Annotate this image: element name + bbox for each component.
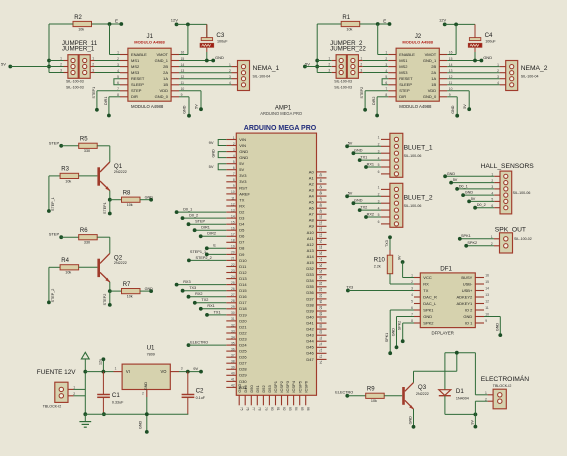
svg-text:2: 2 — [385, 57, 387, 61]
svg-text:SIL-100-02: SIL-100-02 — [514, 237, 532, 241]
svg-text:STEP_2: STEP_2 — [51, 289, 55, 303]
svg-text:75: 75 — [240, 407, 244, 411]
svg-text:3: 3 — [117, 63, 119, 67]
svg-text:3V3: 3V3 — [239, 179, 247, 184]
svg-text:VCC: VCC — [423, 275, 432, 280]
net label TX2 — [358, 208, 362, 212]
svg-text:RX1: RX1 — [367, 162, 374, 166]
wire — [61, 236, 78, 238]
svg-text:27: 27 — [231, 293, 235, 297]
svg-text:2: 2 — [233, 142, 235, 146]
svg-text:R2: R2 — [74, 15, 82, 21]
svg-text:TX2: TX2 — [201, 298, 208, 302]
wire — [110, 54, 121, 56]
svg-text:2B: 2B — [431, 64, 436, 69]
svg-text:100uF: 100uF — [485, 40, 496, 44]
svg-text:A7: A7 — [309, 212, 315, 217]
svg-text:47: 47 — [318, 197, 322, 201]
junction — [186, 370, 190, 374]
svg-text:2: 2 — [117, 57, 119, 61]
svg-text:53: 53 — [318, 233, 322, 237]
svg-text:A10: A10 — [307, 230, 315, 235]
net label GND — [149, 198, 153, 202]
resistor R5 — [79, 137, 98, 154]
svg-text:8: 8 — [233, 178, 235, 182]
svg-text:37: 37 — [231, 354, 235, 358]
wire — [179, 371, 201, 373]
wire — [347, 195, 381, 197]
wire — [207, 60, 213, 62]
wire — [414, 370, 457, 372]
svg-text:61: 61 — [318, 282, 322, 286]
junction — [473, 59, 477, 63]
svg-text:9: 9 — [233, 184, 235, 188]
svg-text:ICSP5: ICSP5 — [297, 380, 302, 392]
svg-text:65: 65 — [318, 306, 322, 310]
svg-text:ELECTROIMÁN: ELECTROIMÁN — [481, 374, 529, 383]
net label ELECTRO — [187, 343, 191, 347]
capacitor C2 (0.1uF) — [182, 372, 206, 415]
svg-text:38: 38 — [231, 360, 235, 364]
wire — [200, 91, 202, 109]
net label GND — [352, 151, 356, 155]
svg-text:51: 51 — [318, 221, 322, 225]
wire — [366, 216, 381, 218]
svg-text:GND_0: GND_0 — [155, 94, 169, 99]
svg-text:D17: D17 — [239, 300, 247, 305]
resistor R4 — [60, 258, 79, 275]
wire — [469, 200, 494, 202]
wire — [475, 400, 487, 402]
net label RX1 — [199, 307, 203, 311]
svg-text:17: 17 — [231, 233, 235, 237]
resistor R2 — [73, 15, 92, 32]
svg-text:R1: R1 — [342, 15, 350, 21]
svg-text:ICSP1: ICSP1 — [273, 380, 278, 392]
svg-text:GND: GND — [239, 155, 248, 160]
svg-text:D39: D39 — [306, 308, 314, 313]
svg-text:50: 50 — [318, 215, 322, 219]
wire — [110, 199, 122, 201]
svg-text:2: 2 — [485, 397, 487, 401]
svg-text:D34: D34 — [306, 278, 314, 283]
svg-text:A5: A5 — [309, 200, 315, 205]
transistor Q3 (2N2222 NPN) — [402, 383, 429, 410]
svg-text:VDD: VDD — [160, 88, 169, 93]
svg-text:DIR1: DIR1 — [201, 226, 210, 230]
wire — [377, 96, 388, 98]
svg-text:DIR: DIR — [131, 94, 138, 99]
svg-text:6: 6 — [378, 170, 380, 174]
svg-text:IO 1: IO 1 — [465, 320, 473, 325]
wire — [474, 24, 476, 37]
net label GND — [395, 345, 399, 349]
wire — [189, 259, 226, 261]
svg-text:GND: GND — [495, 323, 499, 332]
svg-text:5V: 5V — [239, 167, 244, 172]
svg-text:7809: 7809 — [147, 353, 155, 357]
svg-text:GND: GND — [145, 195, 154, 199]
net label 9V (electromagnet supply) — [470, 414, 477, 428]
svg-text:13: 13 — [485, 293, 489, 297]
svg-text:SLEEP: SLEEP — [399, 82, 412, 87]
svg-text:D0_2: D0_2 — [189, 214, 198, 218]
svg-text:NEMA_1: NEMA_1 — [253, 65, 280, 72]
wire — [365, 90, 388, 92]
wire — [206, 24, 208, 37]
wire — [48, 176, 50, 211]
svg-text:IO 2: IO 2 — [465, 307, 473, 312]
svg-text:TBLOCK-I2: TBLOCK-I2 — [493, 384, 512, 388]
svg-text:12V: 12V — [171, 18, 178, 23]
wire — [97, 90, 120, 92]
svg-text:ADKEY1: ADKEY1 — [457, 301, 474, 306]
net label D0_1 — [175, 210, 179, 214]
svg-text:77: 77 — [252, 407, 256, 411]
svg-text:71: 71 — [318, 342, 322, 346]
svg-text:10k: 10k — [346, 27, 352, 31]
svg-text:DAC_L: DAC_L — [423, 301, 437, 306]
svg-text:D30: D30 — [239, 379, 247, 384]
wire — [189, 344, 227, 346]
junction — [205, 59, 209, 63]
svg-text:0.1uF: 0.1uF — [196, 396, 206, 400]
diode D1 (1N4004) — [439, 353, 469, 415]
svg-text:MODULO A4988: MODULO A4988 — [134, 39, 165, 44]
svg-text:STEP1: STEP1 — [92, 87, 96, 99]
net label 5V — [467, 200, 471, 204]
wire — [207, 314, 226, 316]
svg-text:TX: TX — [423, 288, 428, 293]
wire — [95, 66, 121, 68]
wire — [177, 284, 227, 286]
terminal block ELECTROIMAN (TBLOCK-I2) — [481, 374, 529, 409]
svg-text:3: 3 — [497, 75, 499, 79]
wire — [389, 274, 391, 284]
svg-text:21: 21 — [231, 257, 235, 261]
wire — [475, 394, 487, 396]
connector SPK_OUT (SIL-100-02) — [491, 227, 532, 253]
svg-text:STEP2: STEP2 — [360, 87, 364, 99]
wire — [195, 229, 227, 231]
wire — [74, 395, 86, 397]
svg-text:2: 2 — [360, 63, 362, 67]
svg-text:15: 15 — [231, 221, 235, 225]
A4988 driver module J2 — [385, 33, 452, 109]
svg-text:1B: 1B — [431, 82, 436, 87]
svg-text:GND: GND — [447, 172, 456, 176]
svg-text:5: 5 — [411, 300, 413, 304]
wire — [447, 84, 500, 86]
svg-text:6: 6 — [233, 166, 235, 170]
svg-text:ADKEY2: ADKEY2 — [457, 294, 474, 299]
svg-text:70: 70 — [318, 336, 322, 340]
wire — [390, 309, 414, 311]
svg-text:9V: 9V — [398, 255, 402, 260]
svg-text:ICSP6: ICSP6 — [303, 380, 308, 392]
svg-text:68: 68 — [318, 324, 322, 328]
svg-text:D43: D43 — [306, 333, 314, 338]
wire — [347, 395, 365, 397]
wire — [201, 235, 227, 237]
svg-text:MS1: MS1 — [399, 58, 408, 63]
svg-text:7: 7 — [233, 172, 235, 176]
svg-text:1: 1 — [378, 186, 380, 190]
Arduino Mega Pro module AMP1 — [226, 105, 326, 410]
svg-text:D44: D44 — [306, 339, 314, 344]
svg-text:3V3: 3V3 — [239, 173, 247, 178]
wire — [92, 23, 122, 25]
svg-text:1: 1 — [117, 51, 119, 55]
wire — [468, 91, 470, 109]
wire — [413, 371, 415, 382]
svg-text:3: 3 — [328, 69, 330, 73]
wire — [109, 191, 111, 200]
svg-text:A1: A1 — [309, 175, 315, 180]
svg-text:3: 3 — [60, 69, 62, 73]
svg-text:A9: A9 — [309, 224, 315, 229]
net label 5V — [345, 194, 349, 198]
net label RX3 — [175, 283, 179, 287]
svg-text:D0_1: D0_1 — [183, 208, 192, 212]
net label STEP2 — [363, 108, 367, 112]
svg-text:55: 55 — [318, 246, 322, 250]
svg-text:MODULO A4988: MODULO A4988 — [399, 104, 432, 109]
wire — [317, 72, 332, 74]
svg-text:10k: 10k — [65, 271, 71, 275]
svg-text:STEP_1: STEP_1 — [51, 197, 55, 211]
svg-text:A6: A6 — [309, 206, 315, 211]
svg-text:1: 1 — [115, 366, 117, 370]
svg-text:ELECTRO: ELECTRO — [190, 340, 208, 344]
wire — [499, 317, 501, 336]
wire — [114, 79, 120, 85]
svg-text:2: 2 — [142, 391, 144, 395]
svg-text:83: 83 — [288, 407, 292, 411]
net label DIR1 — [107, 114, 111, 118]
svg-text:BLUET_2: BLUET_2 — [404, 195, 433, 202]
net label SPK2 — [464, 244, 468, 248]
wire — [48, 24, 50, 73]
svg-text:3: 3 — [92, 69, 94, 73]
svg-text:82: 82 — [282, 407, 286, 411]
svg-text:USB-: USB- — [463, 281, 473, 286]
svg-text:HALL_SENSORS: HALL_SENSORS — [481, 163, 535, 170]
svg-text:TX2: TX2 — [360, 205, 367, 209]
wire — [195, 302, 227, 304]
svg-text:GND: GND — [423, 314, 432, 319]
wire — [177, 23, 207, 25]
svg-text:GND: GND — [144, 382, 148, 391]
svg-text:VIN: VIN — [239, 143, 246, 148]
svg-text:32: 32 — [231, 323, 235, 327]
svg-text:GND_0: GND_0 — [423, 94, 437, 99]
svg-text:DAC_R: DAC_R — [423, 294, 437, 299]
svg-text:D4: D4 — [239, 222, 245, 227]
svg-text:D36: D36 — [306, 290, 314, 295]
svg-text:D1: D1 — [456, 388, 464, 395]
wire — [445, 23, 475, 25]
svg-text:66: 66 — [318, 312, 322, 316]
svg-text:DIR: DIR — [399, 94, 406, 99]
wire — [466, 245, 494, 247]
svg-text:2: 2 — [497, 69, 499, 73]
net label STEP — [187, 222, 191, 226]
svg-text:GND: GND — [211, 149, 215, 158]
wire — [347, 145, 381, 147]
svg-text:R8: R8 — [123, 191, 131, 197]
svg-text:1: 1 — [60, 57, 62, 61]
wire — [397, 316, 415, 318]
svg-text:E: E — [115, 18, 118, 23]
svg-text:STEP: STEP — [49, 232, 60, 237]
wire — [218, 164, 226, 170]
wire ground rail — [85, 413, 188, 415]
svg-text:MS2: MS2 — [399, 64, 408, 69]
svg-text:79: 79 — [264, 407, 268, 411]
voltage regulator U1 (7809) — [114, 344, 183, 397]
svg-text:76: 76 — [246, 407, 250, 411]
svg-text:5V: 5V — [463, 104, 467, 109]
svg-text:0.33uF: 0.33uF — [112, 401, 124, 405]
svg-text:D18: D18 — [239, 306, 247, 311]
wire — [10, 66, 63, 68]
net label D0_1 — [455, 187, 459, 191]
svg-text:A3: A3 — [309, 187, 315, 192]
junction — [186, 23, 190, 27]
svg-text:GND: GND — [354, 149, 363, 153]
svg-text:10k: 10k — [371, 399, 377, 403]
svg-text:R9: R9 — [367, 387, 375, 393]
svg-text:35: 35 — [231, 341, 235, 345]
svg-text:D25: D25 — [239, 349, 247, 354]
wire — [457, 188, 494, 190]
svg-text:3: 3 — [181, 366, 183, 370]
resistor R9 — [366, 387, 385, 404]
wire — [61, 145, 78, 147]
wire — [389, 310, 391, 353]
svg-text:62: 62 — [318, 288, 322, 292]
svg-text:JUMPER_1: JUMPER_1 — [62, 46, 95, 53]
svg-text:D22: D22 — [239, 330, 247, 335]
svg-text:GND: GND — [409, 416, 413, 425]
net label SPK1 — [388, 351, 392, 355]
svg-text:D7: D7 — [239, 240, 245, 245]
svg-text:D2: D2 — [239, 210, 245, 215]
net label STEP_1 — [47, 209, 51, 213]
wire — [413, 409, 415, 427]
wire — [179, 78, 232, 80]
svg-text:6: 6 — [378, 220, 380, 224]
svg-text:54: 54 — [318, 239, 322, 243]
svg-text:2N2222: 2N2222 — [416, 392, 429, 396]
wire — [316, 24, 318, 73]
wire — [360, 209, 381, 211]
net label STEP2_2 — [187, 259, 191, 263]
wire — [109, 200, 111, 214]
svg-text:SIL-100-06: SIL-100-06 — [513, 191, 531, 195]
svg-text:1A: 1A — [431, 76, 436, 81]
wire — [305, 66, 332, 68]
svg-text:A15: A15 — [307, 260, 315, 265]
svg-text:26: 26 — [231, 287, 235, 291]
svg-text:ICSP3: ICSP3 — [285, 380, 290, 392]
svg-text:ARDUINO MEGA PRO: ARDUINO MEGA PRO — [244, 125, 317, 132]
svg-text:A13: A13 — [307, 248, 315, 253]
svg-text:MS3: MS3 — [399, 70, 408, 75]
wire — [403, 322, 414, 324]
svg-text:69: 69 — [318, 330, 322, 334]
svg-text:30: 30 — [231, 311, 235, 315]
net label TX1 — [205, 313, 209, 317]
svg-text:DIR2: DIR2 — [207, 232, 216, 236]
svg-text:4: 4 — [385, 69, 387, 73]
junction — [83, 370, 87, 374]
svg-text:49: 49 — [318, 209, 322, 213]
svg-text:ICSP4: ICSP4 — [291, 380, 296, 392]
svg-text:D37: D37 — [306, 296, 314, 301]
svg-text:D13: D13 — [239, 276, 247, 281]
resistor R1 — [341, 15, 360, 32]
net label GND — [480, 59, 484, 63]
svg-text:DIR1: DIR1 — [104, 97, 108, 105]
svg-text:D50: D50 — [249, 384, 254, 392]
svg-text:SIL-100-04: SIL-100-04 — [253, 74, 271, 78]
svg-text:5V: 5V — [1, 62, 6, 67]
svg-text:10k: 10k — [65, 179, 71, 183]
svg-text:SIL-100-06: SIL-100-06 — [404, 204, 422, 208]
svg-text:ICSP2: ICSP2 — [279, 380, 284, 392]
net label RX2 — [187, 295, 191, 299]
svg-text:D33: D33 — [306, 272, 314, 277]
net label GND — [461, 193, 465, 197]
wire — [447, 90, 469, 92]
wire — [95, 60, 121, 62]
wire — [363, 72, 389, 74]
net label TX1 — [358, 158, 362, 162]
wire — [317, 60, 332, 62]
svg-text:9: 9 — [485, 319, 487, 323]
wire — [140, 199, 151, 201]
svg-text:TX: TX — [239, 197, 244, 202]
svg-text:52: 52 — [318, 227, 322, 231]
net label GND — [412, 425, 416, 429]
net label 12V (riser) — [98, 357, 105, 371]
svg-text:5V: 5V — [239, 161, 244, 166]
svg-text:SIL-100-04: SIL-100-04 — [521, 74, 539, 78]
svg-text:D42: D42 — [306, 327, 314, 332]
svg-text:VO: VO — [160, 369, 166, 374]
wire — [109, 24, 111, 55]
svg-text:DIR2: DIR2 — [372, 97, 376, 105]
DFPlayer module DF1 — [411, 265, 489, 335]
svg-text:39: 39 — [231, 366, 235, 370]
svg-text:5V: 5V — [348, 142, 353, 146]
wire — [97, 236, 110, 238]
svg-text:20: 20 — [231, 251, 235, 255]
junction — [102, 370, 106, 374]
node E junction — [376, 22, 380, 26]
svg-text:D41: D41 — [306, 321, 314, 326]
svg-text:MODULO A4988: MODULO A4988 — [131, 104, 164, 109]
svg-text:D23: D23 — [239, 337, 247, 342]
svg-text:45: 45 — [318, 185, 322, 189]
svg-text:64: 64 — [318, 300, 322, 304]
junction — [455, 351, 459, 355]
wire — [353, 152, 381, 154]
svg-text:D8: D8 — [239, 246, 245, 251]
svg-text:74: 74 — [318, 360, 322, 364]
